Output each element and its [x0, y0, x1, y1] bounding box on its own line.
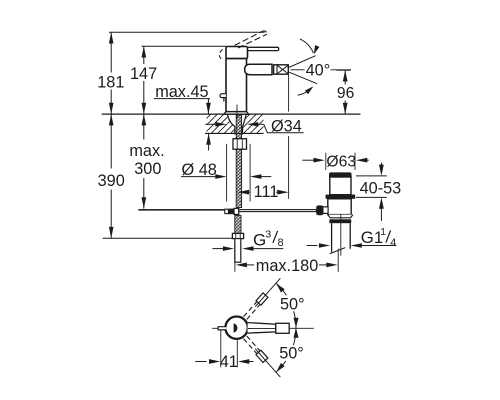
svg-text:181: 181 — [97, 73, 124, 91]
label G1-1/4 leader — [362, 245, 397, 247]
dimension 96 line — [344, 70, 346, 84]
faucet lever rod — [248, 47, 279, 50]
svg-text:40°: 40° — [306, 61, 331, 79]
raised lever dashed upper line — [235, 31, 263, 45]
extension line top of raised handle (181 ref) — [109, 31, 265, 33]
svg-text:41: 41 — [220, 353, 238, 371]
dimension 390 bottom reference line — [103, 237, 233, 239]
plan view handle grip — [276, 323, 289, 333]
faucet body cylinder — [226, 59, 247, 112]
label G3/8 leader — [253, 248, 283, 250]
plan lower 50deg arc — [293, 328, 296, 345]
pop-up actuator knob at body rear — [220, 94, 226, 98]
deck cross-section bottom line — [205, 132, 264, 134]
svg-text:max.180: max.180 — [256, 257, 318, 275]
drain upper body — [330, 177, 351, 195]
spout centerline segments — [291, 69, 305, 71]
dimension O63 extension lines — [325, 153, 327, 170]
plan view handle centerline — [289, 327, 314, 329]
spout aerator box — [274, 65, 289, 74]
svg-text:Ø34: Ø34 — [271, 117, 302, 135]
svg-text:3: 3 — [265, 228, 271, 240]
label G1-1/4 left arrow — [307, 245, 318, 247]
plan upper swung lever grip — [256, 293, 268, 305]
dimension 41 extension lines — [220, 330, 222, 367]
svg-text:300: 300 — [134, 160, 161, 178]
plan lower lever extension line — [255, 349, 280, 377]
plan lower swung lever dashes — [244, 339, 263, 360]
dimension max300 bottom reference — [138, 208, 224, 210]
shank escutcheon funnel left side — [227, 114, 235, 134]
dimension max180 extension right — [337, 249, 339, 272]
supply hose nut — [232, 233, 243, 238]
svg-text:50°: 50° — [280, 296, 305, 314]
svg-text:1: 1 — [380, 227, 386, 238]
svg-text:147: 147 — [130, 65, 157, 83]
svg-text:50°: 50° — [279, 345, 304, 363]
drain flange ring — [326, 195, 356, 199]
drain control knob — [316, 205, 323, 215]
label G3/8 left arrow — [212, 248, 223, 250]
dimension O34 arrows at deck hole — [205, 123, 216, 125]
spray fan lower line — [289, 72, 317, 84]
shank escutcheon funnel right side — [243, 114, 247, 134]
plan upper lever extension line — [255, 278, 280, 306]
faucet base flange — [224, 112, 249, 115]
plan view spout stub — [218, 327, 226, 330]
spray fan upper line — [289, 56, 316, 68]
dimension 40-53 arrows — [380, 163, 382, 166]
dimension max180 extension left — [234, 244, 236, 272]
svg-text:G: G — [253, 230, 266, 249]
plan upper 50deg arc — [276, 283, 286, 295]
plan view handle neck inner line — [248, 327, 276, 329]
dimension 96 top reference — [337, 69, 351, 71]
faucet spout — [245, 64, 272, 74]
supply hose tube end G3/8 — [235, 239, 241, 263]
dimension 181 line — [110, 32, 112, 72]
drain tailpipe cut slash — [330, 248, 345, 254]
shank mounting nut — [233, 139, 247, 150]
drain tailpipe right wall — [349, 223, 351, 249]
plan upper swung lever dashes — [247, 298, 265, 319]
raised lever dashed tip — [263, 31, 267, 34]
svg-text:390: 390 — [98, 172, 125, 190]
dimension 147 line — [143, 46, 145, 64]
dimension O34 leader — [264, 124, 304, 133]
drain waste body — [328, 199, 351, 215]
dimension O48 extension lines — [226, 144, 228, 202]
threaded shank rod — [236, 115, 241, 208]
supply hose threaded end — [235, 215, 241, 233]
svg-text:Ø63: Ø63 — [326, 154, 356, 171]
dimension max180 line — [247, 264, 255, 266]
dimension max45 arrow below deck — [208, 133, 210, 150]
dimension 40-53 top reference — [356, 175, 387, 177]
aerator cross mark — [277, 65, 288, 74]
spray angle lower arc — [298, 87, 313, 95]
plan view handle neck — [248, 323, 276, 334]
extension line top of handle rest (147 ref) — [142, 45, 227, 47]
plan lower swung lever grip — [256, 350, 268, 362]
svg-text:8: 8 — [278, 237, 284, 249]
plan view spout stub leader — [212, 327, 218, 329]
pop-up rod clamp — [225, 209, 229, 213]
svg-text:40-53: 40-53 — [360, 180, 402, 198]
drain knob stub — [323, 207, 328, 214]
plan view cartridge D mark — [234, 323, 238, 332]
deck cross-section hatch left — [207, 114, 236, 133]
raised lever dashed lower line — [238, 34, 267, 48]
pop-up rod to drain — [239, 210, 317, 212]
drain body taper — [328, 215, 353, 218]
raised lever dashed base arc — [219, 49, 223, 59]
drain tailpipe left wall — [331, 223, 333, 252]
deck cross-section hatch right — [243, 114, 264, 133]
dimension 111 arrows — [245, 191, 250, 193]
plan view body circle — [225, 317, 247, 339]
spray angle upper arc — [300, 39, 314, 53]
svg-text:max.: max. — [129, 142, 164, 160]
dimension 41 arrows — [195, 361, 206, 363]
drain coupling nut — [329, 219, 351, 223]
dimension O48 line — [181, 176, 217, 178]
dimension max45 underline — [154, 98, 210, 100]
svg-text:111: 111 — [254, 183, 279, 201]
dimension O63 arrows — [302, 159, 313, 161]
drain top cap — [329, 172, 352, 177]
spout tip extension line — [288, 75, 290, 112]
faucet base centerline tick — [236, 105, 238, 120]
faucet cap (cartridge housing) — [226, 47, 248, 59]
dimension max45 arrow above deck — [207, 99, 209, 115]
pop-up rod horizontal thin section — [138, 209, 224, 211]
dimension 40-53 bottom reference — [356, 196, 387, 198]
dimension max300 line — [143, 114, 145, 139]
mounting deck surface line — [102, 113, 361, 115]
svg-text:4: 4 — [390, 237, 396, 249]
drain tailpipe centerline — [340, 214, 342, 256]
dimension 390 line — [110, 114, 112, 168]
svg-text:96: 96 — [337, 85, 354, 102]
